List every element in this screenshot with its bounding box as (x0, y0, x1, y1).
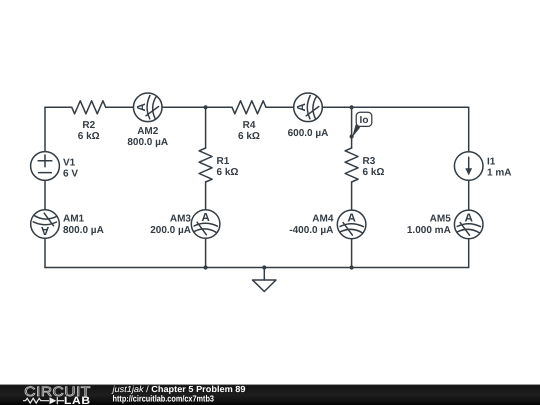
wire AM5 to bottom rail (468, 239, 470, 268)
svg-text:200.0 µA: 200.0 µA (150, 225, 191, 236)
ammeter AM3 (191, 210, 220, 239)
svg-text:A: A (40, 224, 49, 237)
svg-text:6 kΩ: 6 kΩ (363, 167, 385, 178)
node B junction dot (350, 105, 354, 109)
svg-text:AM1: AM1 (63, 214, 85, 225)
junction dot bottom node B (350, 265, 354, 269)
node Io junction dot (350, 134, 354, 138)
svg-text:R2: R2 (82, 120, 95, 131)
wire left top corner down to V1 (44, 107, 46, 151)
svg-text:AM4: AM4 (312, 214, 334, 225)
wire R4 to ammeter (266, 106, 294, 108)
logo CircuitLab (23, 384, 91, 405)
svg-text:6 V: 6 V (63, 169, 78, 180)
resistor R1 (199, 148, 212, 182)
resistor R2 (72, 101, 106, 114)
svg-text:6 kΩ: 6 kΩ (238, 131, 260, 142)
svg-text:A: A (201, 211, 210, 224)
wire bottom rail (45, 267, 469, 269)
ammeter AM5 (454, 210, 483, 239)
voltage source V1 (31, 152, 60, 181)
current source I1 (454, 152, 483, 181)
svg-text:R1: R1 (217, 156, 230, 167)
wire R3 to AM4 (351, 182, 353, 210)
ammeter AM4 (337, 210, 366, 239)
svg-text:6 kΩ: 6 kΩ (217, 167, 239, 178)
footer bar (0, 385, 540, 405)
svg-text:800.0 µA: 800.0 µA (63, 225, 104, 236)
svg-text:-400.0 µA: -400.0 µA (289, 225, 333, 236)
ammeter AM2 (133, 93, 162, 122)
svg-text:600.0 µA: 600.0 µA (288, 128, 329, 139)
wire AM1 to bottom-left corner (44, 238, 46, 267)
ground (253, 268, 277, 292)
svg-text:AM2: AM2 (137, 126, 159, 137)
svg-text:1 mA: 1 mA (487, 168, 511, 179)
wire ammeter to node B (322, 106, 351, 108)
junction dot bottom node A (204, 265, 208, 269)
svg-text:A: A (464, 211, 473, 224)
svg-text:R3: R3 (363, 156, 376, 167)
junction dot ground (262, 265, 266, 269)
wire AM3 to bottom rail (205, 238, 207, 267)
svg-text:R4: R4 (243, 120, 256, 131)
svg-text:Io: Io (360, 115, 369, 126)
ammeter AM1 (31, 210, 60, 239)
wire AM4 to bottom rail (351, 239, 353, 268)
svg-text:just1jak / Chapter 5 Problem 8: just1jak / Chapter 5 Problem 89 (111, 384, 245, 394)
flag Io (352, 112, 372, 137)
wire node A down to R1 (205, 107, 207, 148)
wire R2 to AM2 (106, 106, 134, 108)
wire node B to top-right corner down to I1 (352, 107, 469, 152)
svg-text:1.000 mA: 1.000 mA (407, 225, 451, 236)
node A junction dot (204, 105, 208, 109)
svg-text:A: A (135, 103, 148, 112)
svg-text:AM5: AM5 (430, 214, 452, 225)
svg-text:AM3: AM3 (170, 214, 192, 225)
svg-text:V1: V1 (63, 158, 76, 169)
resistor R3 (345, 148, 358, 182)
svg-text:A: A (295, 103, 308, 112)
wire V1 to AM1 (44, 180, 46, 209)
svg-text:http://circuitlab.com/cx7mtb3: http://circuitlab.com/cx7mtb3 (113, 393, 215, 403)
wire I1 to AM5 (468, 180, 470, 210)
wire R1 to AM3 (205, 182, 207, 210)
svg-text:I1: I1 (487, 157, 496, 168)
svg-text:800.0 µA: 800.0 µA (127, 137, 168, 148)
ammeter 600uA (294, 93, 323, 122)
svg-text:A: A (347, 211, 356, 224)
wire node A to R4 (206, 106, 232, 108)
wire node B down to R3 (351, 107, 353, 148)
wire AM2 to node A (162, 106, 206, 108)
svg-text:6 kΩ: 6 kΩ (78, 131, 100, 142)
resistor R4 (232, 101, 266, 114)
svg-text:LAB: LAB (64, 395, 91, 405)
wire top-left segment (45, 106, 72, 108)
